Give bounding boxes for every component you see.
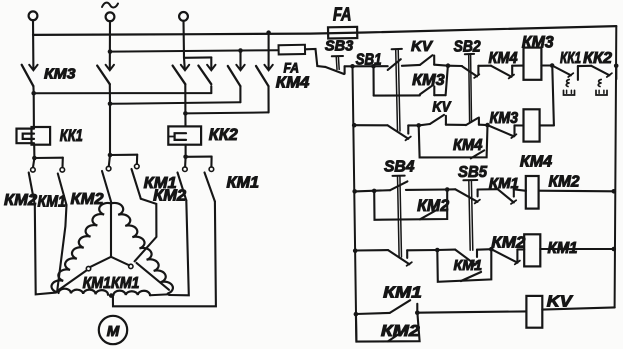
svg-text:КМ1: КМ1 bbox=[38, 194, 66, 211]
svg-text:КК1: КК1 bbox=[60, 127, 83, 145]
svg-text:КМ2: КМ2 bbox=[153, 187, 186, 204]
svg-text:КМ1: КМ1 bbox=[454, 257, 483, 274]
svg-text:КМ3: КМ3 bbox=[412, 72, 445, 89]
svg-text:КМ4: КМ4 bbox=[520, 153, 552, 170]
svg-text:SB1: SB1 bbox=[356, 52, 382, 69]
svg-text:КМ1: КМ1 bbox=[383, 285, 422, 302]
svg-text:КМ3: КМ3 bbox=[44, 65, 76, 82]
svg-text:SB4: SB4 bbox=[384, 159, 414, 176]
svg-text:FA: FA bbox=[333, 4, 352, 24]
svg-text:КМ2: КМ2 bbox=[381, 323, 420, 340]
svg-text:КК2: КК2 bbox=[209, 126, 238, 144]
svg-text:FA: FA bbox=[284, 59, 300, 75]
svg-text:КК2: КК2 bbox=[583, 50, 612, 67]
svg-text:КМ2: КМ2 bbox=[71, 191, 104, 208]
svg-text:КМ2: КМ2 bbox=[549, 174, 580, 191]
svg-text:М: М bbox=[107, 323, 120, 340]
svg-text:КМ1: КМ1 bbox=[227, 175, 260, 192]
svg-text:SB3: SB3 bbox=[325, 38, 354, 55]
svg-text:KV: KV bbox=[411, 38, 434, 55]
svg-text:КМ1КМ1: КМ1КМ1 bbox=[83, 275, 140, 292]
svg-text:КК1: КК1 bbox=[560, 50, 581, 67]
svg-text:КМ4: КМ4 bbox=[453, 137, 483, 154]
svg-text:КМ2: КМ2 bbox=[4, 192, 37, 209]
svg-text:КМ4: КМ4 bbox=[489, 50, 518, 67]
svg-text:КМ4: КМ4 bbox=[276, 75, 310, 92]
svg-text:SB5: SB5 bbox=[458, 164, 488, 181]
svg-text:KV: KV bbox=[432, 100, 451, 116]
svg-text:SB2: SB2 bbox=[454, 39, 481, 56]
